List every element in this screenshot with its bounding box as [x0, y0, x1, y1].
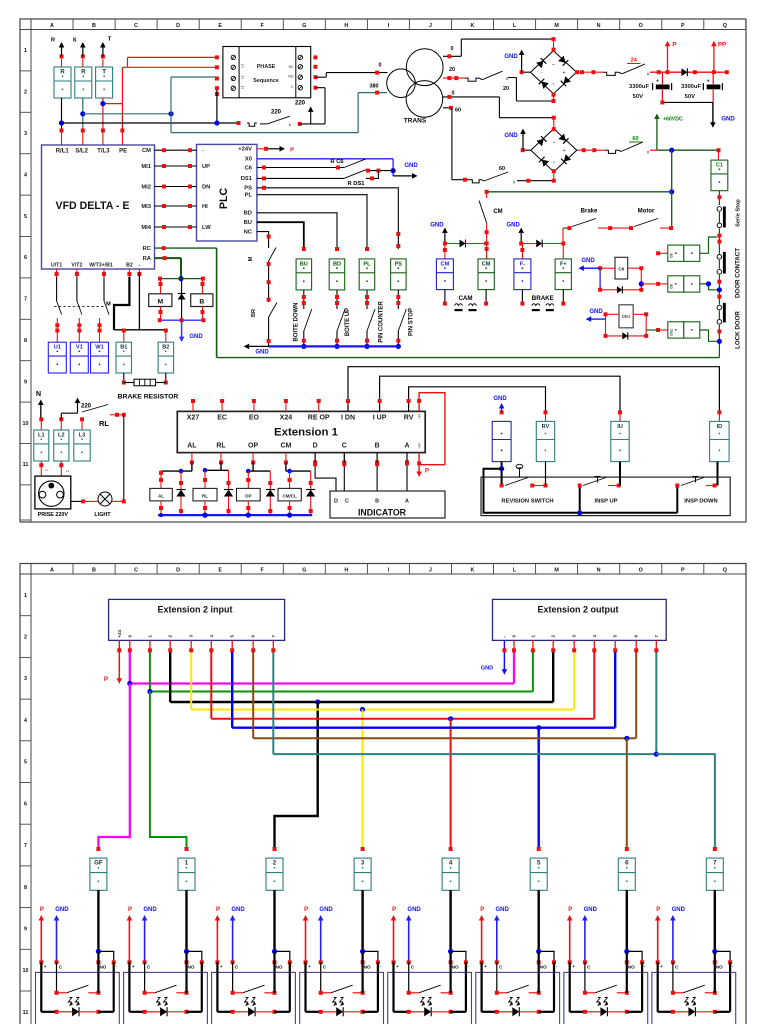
svg-text:MI2: MI2	[141, 184, 151, 190]
svg-text:60: 60	[455, 108, 461, 114]
svg-text:P: P	[40, 907, 44, 913]
svg-text:T/L3: T/L3	[97, 149, 110, 155]
svg-text:P: P	[672, 42, 676, 49]
svg-text:NO: NO	[628, 965, 635, 970]
svg-text:E: E	[218, 23, 222, 29]
svg-text:+: +	[572, 964, 575, 969]
svg-text:5: 5	[537, 860, 541, 867]
svg-text:R: R	[81, 68, 86, 75]
svg-text:T: T	[108, 37, 112, 43]
svg-text:M: M	[106, 302, 111, 308]
svg-text:S: S	[73, 38, 77, 44]
svg-text:GND: GND	[589, 309, 603, 315]
svg-text:+: +	[562, 70, 565, 76]
svg-text:BRAKE: BRAKE	[532, 295, 554, 302]
svg-text:E: E	[218, 567, 222, 573]
svg-text:PL: PL	[363, 261, 371, 267]
svg-text:~: ~	[552, 63, 555, 69]
svg-text:NO: NO	[99, 965, 106, 970]
svg-text:DS: DS	[670, 283, 674, 288]
svg-text:0: 0	[379, 63, 382, 69]
svg-text:24: 24	[631, 58, 638, 64]
svg-text:C: C	[342, 443, 347, 450]
svg-text:P: P	[392, 907, 396, 913]
svg-text:4: 4	[449, 860, 453, 867]
svg-text:RL: RL	[99, 419, 109, 428]
svg-text:L2: L2	[58, 432, 65, 438]
svg-text:8: 8	[24, 338, 27, 344]
svg-text:UP: UP	[202, 164, 210, 170]
svg-text:EO: EO	[249, 415, 260, 422]
svg-text:GND: GND	[255, 350, 269, 356]
svg-text:+24: +24	[418, 443, 422, 449]
svg-text:PP: PP	[718, 42, 726, 49]
svg-text:AL: AL	[187, 443, 197, 450]
svg-text:BU: BU	[300, 261, 308, 267]
svg-text:+: +	[656, 79, 659, 85]
svg-text:GND: GND	[504, 133, 518, 139]
svg-text:3: 3	[24, 676, 27, 682]
svg-text:G: G	[302, 23, 306, 29]
svg-text:CM: CM	[441, 261, 450, 267]
svg-text:CAM: CAM	[458, 295, 472, 302]
svg-text:CM: CM	[142, 148, 151, 154]
svg-text:P: P	[425, 468, 429, 475]
svg-text:Extension 1: Extension 1	[274, 427, 339, 439]
svg-text:B: B	[199, 298, 204, 305]
svg-text:I UP: I UP	[373, 415, 387, 422]
svg-text:GF: GF	[94, 860, 103, 867]
svg-text:D: D	[313, 443, 318, 450]
svg-text:380: 380	[370, 84, 379, 90]
svg-text:L3: L3	[241, 64, 245, 68]
svg-text:B2: B2	[126, 263, 133, 269]
svg-text:Motor: Motor	[638, 209, 655, 215]
svg-text:PL: PL	[245, 193, 253, 199]
svg-text:NC: NC	[244, 229, 253, 235]
svg-text:A: A	[50, 23, 54, 29]
svg-text:GND: GND	[496, 907, 510, 913]
svg-text:RL: RL	[216, 443, 226, 450]
svg-text:B: B	[375, 443, 380, 450]
svg-text:X24: X24	[280, 415, 293, 422]
svg-text:NO: NO	[364, 965, 371, 970]
svg-text:PHASE: PHASE	[257, 64, 276, 70]
svg-text:J: J	[429, 567, 432, 573]
svg-text:W/T3+/B1: W/T3+/B1	[89, 263, 113, 269]
svg-text:3300uF: 3300uF	[681, 84, 701, 90]
svg-text:9: 9	[24, 927, 27, 933]
svg-text:C: C	[134, 23, 138, 29]
svg-text:B: B	[375, 499, 379, 505]
svg-text:20: 20	[503, 86, 509, 92]
svg-text:7: 7	[24, 297, 27, 303]
svg-text:NO: NO	[276, 965, 283, 970]
svg-text:C6: C6	[670, 253, 674, 257]
svg-text:GND: GND	[55, 907, 69, 913]
svg-text:220: 220	[295, 101, 306, 107]
svg-text:OP: OP	[245, 494, 252, 499]
svg-text:50V: 50V	[685, 94, 695, 100]
svg-text:P: P	[568, 907, 572, 913]
svg-text:GND: GND	[404, 163, 418, 169]
svg-text:PE: PE	[119, 149, 127, 155]
svg-text:ID: ID	[717, 424, 723, 430]
svg-text:T: T	[102, 68, 106, 75]
svg-text:HI: HI	[202, 204, 208, 210]
svg-text:BR: BR	[251, 309, 257, 317]
svg-text:Sequence: Sequence	[253, 78, 278, 84]
svg-text:B: B	[92, 567, 96, 573]
svg-text:V/T2: V/T2	[71, 263, 82, 269]
svg-text:RA: RA	[143, 256, 152, 262]
svg-text:+60VDC: +60VDC	[663, 117, 683, 123]
svg-text:RC: RC	[143, 246, 152, 252]
svg-text:2: 2	[24, 90, 27, 96]
svg-text:P: P	[290, 147, 294, 153]
svg-text:CM: CM	[493, 209, 502, 215]
svg-text:RL: RL	[202, 494, 208, 499]
svg-text:PLC: PLC	[218, 188, 230, 210]
svg-text:NO: NO	[540, 965, 547, 970]
svg-text:4: 4	[24, 172, 27, 178]
svg-text:L1: L1	[66, 469, 70, 473]
svg-text:DS1: DS1	[670, 329, 674, 336]
svg-text:P: P	[681, 23, 685, 29]
svg-text:W1: W1	[95, 345, 103, 351]
svg-text:O: O	[639, 23, 643, 29]
svg-text:GND: GND	[504, 54, 518, 60]
svg-text:1: 1	[185, 860, 189, 867]
svg-text:Extension 2 output: Extension 2 output	[538, 605, 619, 615]
svg-text:J: J	[429, 23, 432, 29]
svg-text:C6: C6	[618, 267, 624, 272]
svg-text:2: 2	[273, 860, 277, 867]
svg-text:+: +	[308, 964, 311, 969]
svg-text:P: P	[304, 907, 308, 913]
svg-text:F+: F+	[560, 261, 567, 267]
svg-text:P: P	[216, 907, 220, 913]
svg-text:R/L1: R/L1	[56, 149, 70, 155]
svg-text:Brake: Brake	[581, 209, 598, 215]
svg-text:NO: NO	[452, 965, 459, 970]
svg-text:VFD DELTA - E: VFD DELTA - E	[56, 200, 130, 212]
svg-text:GND: GND	[507, 223, 521, 229]
svg-text:N: N	[597, 23, 601, 29]
svg-text:+: +	[220, 964, 223, 969]
svg-text:L1: L1	[241, 85, 245, 89]
svg-text:20: 20	[449, 67, 455, 73]
svg-text:2: 2	[24, 635, 27, 641]
svg-text:P: P	[681, 567, 685, 573]
svg-text:60: 60	[499, 166, 505, 172]
svg-text:P: P	[128, 907, 132, 913]
svg-text:M: M	[248, 256, 254, 261]
svg-text:BD: BD	[244, 211, 252, 217]
svg-text:BD: BD	[333, 261, 341, 267]
svg-text:GND: GND	[407, 907, 421, 913]
svg-text:P: P	[656, 907, 660, 913]
svg-text:Serie Stop: Serie Stop	[736, 199, 742, 227]
svg-text:3300uF: 3300uF	[629, 84, 649, 90]
svg-text:LW: LW	[202, 225, 211, 231]
svg-text:BRAKE RESISTOR: BRAKE RESISTOR	[118, 394, 179, 401]
svg-text:TRANS: TRANS	[404, 118, 427, 125]
svg-text:DN: DN	[202, 184, 210, 190]
svg-text:GND: GND	[319, 907, 333, 913]
svg-text:LIGHT: LIGHT	[94, 512, 111, 518]
svg-text:INSP UP: INSP UP	[594, 499, 617, 505]
svg-text:C6: C6	[245, 165, 253, 171]
svg-text:GND: GND	[721, 117, 735, 123]
svg-text:7: 7	[24, 843, 27, 849]
svg-text:S/L2: S/L2	[75, 149, 88, 155]
svg-text:+24: +24	[418, 414, 422, 420]
svg-text:GND: GND	[581, 258, 595, 264]
svg-text:L2: L2	[241, 75, 245, 79]
svg-text:REVISION SWITCH: REVISION SWITCH	[501, 499, 553, 505]
svg-text:GND: GND	[231, 907, 245, 913]
svg-text:5: 5	[24, 760, 27, 766]
svg-text:11: 11	[23, 462, 29, 468]
svg-text:GND: GND	[189, 334, 203, 340]
svg-text:+: +	[563, 148, 566, 154]
svg-text:MI3: MI3	[141, 204, 151, 210]
svg-text:4: 4	[24, 718, 27, 724]
svg-text:60: 60	[632, 136, 638, 142]
svg-text:MI4: MI4	[141, 225, 151, 231]
svg-text:L3: L3	[79, 432, 86, 438]
svg-text:A: A	[405, 499, 409, 505]
svg-text:~: ~	[552, 82, 555, 88]
svg-text:D: D	[176, 567, 180, 573]
svg-text:0: 0	[452, 91, 455, 97]
svg-text:MI1: MI1	[141, 164, 151, 170]
svg-text:K: K	[471, 567, 475, 573]
svg-text:BOITE DOWN: BOITE DOWN	[294, 303, 300, 342]
svg-text:6: 6	[24, 255, 27, 261]
svg-text:C: C	[345, 499, 349, 505]
svg-text:3: 3	[361, 860, 365, 867]
svg-text:C: C	[134, 567, 138, 573]
svg-text:P: P	[480, 907, 484, 913]
svg-text:M: M	[554, 23, 559, 29]
svg-text:H: H	[344, 567, 348, 573]
svg-text:Q: Q	[723, 567, 727, 573]
svg-text:R C6: R C6	[330, 159, 344, 165]
svg-text:+: +	[132, 964, 135, 969]
svg-text:5: 5	[24, 214, 27, 220]
svg-text:220: 220	[271, 110, 282, 116]
svg-text:9: 9	[24, 379, 27, 385]
svg-text:G: G	[302, 567, 306, 573]
svg-text:1: 1	[24, 48, 27, 54]
svg-text:NC: NC	[289, 65, 294, 69]
svg-text:DS1: DS1	[241, 176, 253, 182]
svg-text:PRISE 220V: PRISE 220V	[38, 512, 69, 518]
svg-text:C1: C1	[716, 163, 723, 169]
svg-text:PS: PS	[244, 186, 252, 192]
svg-text:CM: CM	[280, 443, 291, 450]
svg-text:GND: GND	[584, 907, 598, 913]
svg-text:Extension 2 input: Extension 2 input	[157, 605, 232, 615]
svg-text:IU: IU	[617, 424, 623, 430]
svg-text:A: A	[404, 443, 409, 450]
svg-text:R DS1: R DS1	[347, 181, 365, 187]
svg-text:N: N	[36, 391, 41, 398]
svg-text:B: B	[92, 23, 96, 29]
svg-text:+: +	[484, 964, 487, 969]
svg-text:10: 10	[23, 968, 29, 974]
svg-text:+24V: +24V	[238, 147, 252, 153]
svg-text:I DN: I DN	[341, 415, 355, 422]
svg-text:GND: GND	[481, 666, 493, 672]
svg-text:3: 3	[24, 131, 27, 137]
svg-text:10: 10	[23, 421, 29, 427]
svg-text:N: N	[45, 468, 47, 472]
svg-text:RV: RV	[542, 424, 550, 430]
svg-text:CM: CM	[482, 261, 491, 267]
svg-text:BU: BU	[244, 220, 252, 226]
svg-text:U1: U1	[54, 345, 61, 351]
svg-text:Q: Q	[723, 23, 727, 29]
svg-text:INDICATOR: INDICATOR	[358, 508, 407, 518]
svg-text:GND: GND	[672, 907, 686, 913]
svg-text:RE OP: RE OP	[308, 415, 330, 422]
svg-text:PIN COUNTER: PIN COUNTER	[379, 301, 385, 343]
svg-text:R: R	[60, 68, 65, 75]
svg-text:D: D	[176, 23, 180, 29]
svg-text:DB1: DB1	[622, 314, 631, 319]
svg-text:H: H	[344, 23, 348, 29]
svg-text:A: A	[50, 567, 54, 573]
svg-text:K: K	[471, 23, 475, 29]
svg-text:B1: B1	[120, 345, 127, 351]
svg-text:11: 11	[23, 1010, 29, 1016]
svg-text:D: D	[334, 499, 338, 505]
svg-text:U/T1: U/T1	[51, 263, 62, 269]
svg-text:AL: AL	[158, 494, 164, 499]
svg-text:PS: PS	[395, 261, 403, 267]
svg-text:PIN STOP: PIN STOP	[409, 308, 415, 336]
svg-text:O: O	[639, 567, 643, 573]
svg-text:8: 8	[24, 885, 27, 891]
svg-text:F-: F-	[520, 261, 525, 267]
svg-text:M: M	[157, 298, 163, 305]
svg-text:EC: EC	[217, 415, 227, 422]
svg-text:NO: NO	[716, 965, 723, 970]
svg-text:NO: NO	[188, 965, 195, 970]
svg-text:50V: 50V	[633, 94, 643, 100]
svg-text:M: M	[554, 567, 559, 573]
svg-text:~: ~	[552, 141, 555, 147]
svg-text:~: ~	[552, 160, 555, 166]
svg-text:-: -	[139, 263, 141, 269]
svg-text:1: 1	[24, 593, 27, 599]
svg-text:V1: V1	[76, 345, 83, 351]
svg-text:6: 6	[625, 860, 629, 867]
svg-text:LOCK DOOR: LOCK DOOR	[735, 311, 742, 349]
svg-text:GND: GND	[430, 223, 444, 229]
svg-text:BOITE UP: BOITE UP	[345, 308, 351, 336]
svg-text:X0: X0	[245, 157, 252, 163]
svg-text:L1: L1	[38, 432, 45, 438]
svg-text:N: N	[597, 567, 601, 573]
svg-text:P: P	[104, 676, 108, 683]
svg-text:B2: B2	[162, 345, 169, 351]
svg-text:X27: X27	[187, 415, 200, 422]
svg-text:NO: NO	[288, 75, 293, 79]
svg-text:GND: GND	[143, 907, 157, 913]
svg-text:7: 7	[713, 860, 717, 867]
svg-text:OP: OP	[248, 443, 258, 450]
svg-text:+: +	[707, 79, 710, 85]
svg-text:RV: RV	[404, 415, 414, 422]
svg-text:INSP DOWN: INSP DOWN	[684, 499, 717, 505]
svg-text:GND: GND	[493, 396, 507, 402]
svg-text:6: 6	[24, 801, 27, 807]
svg-text:+: +	[660, 964, 663, 969]
svg-text:+24: +24	[117, 629, 122, 637]
svg-text:220: 220	[81, 404, 92, 410]
svg-text:DOOR CONTACT: DOOR CONTACT	[735, 248, 742, 298]
svg-text:+: +	[44, 964, 47, 969]
svg-text:0: 0	[451, 46, 454, 52]
svg-text:+: +	[396, 964, 399, 969]
svg-text:CM/CL: CM/CL	[282, 494, 296, 499]
